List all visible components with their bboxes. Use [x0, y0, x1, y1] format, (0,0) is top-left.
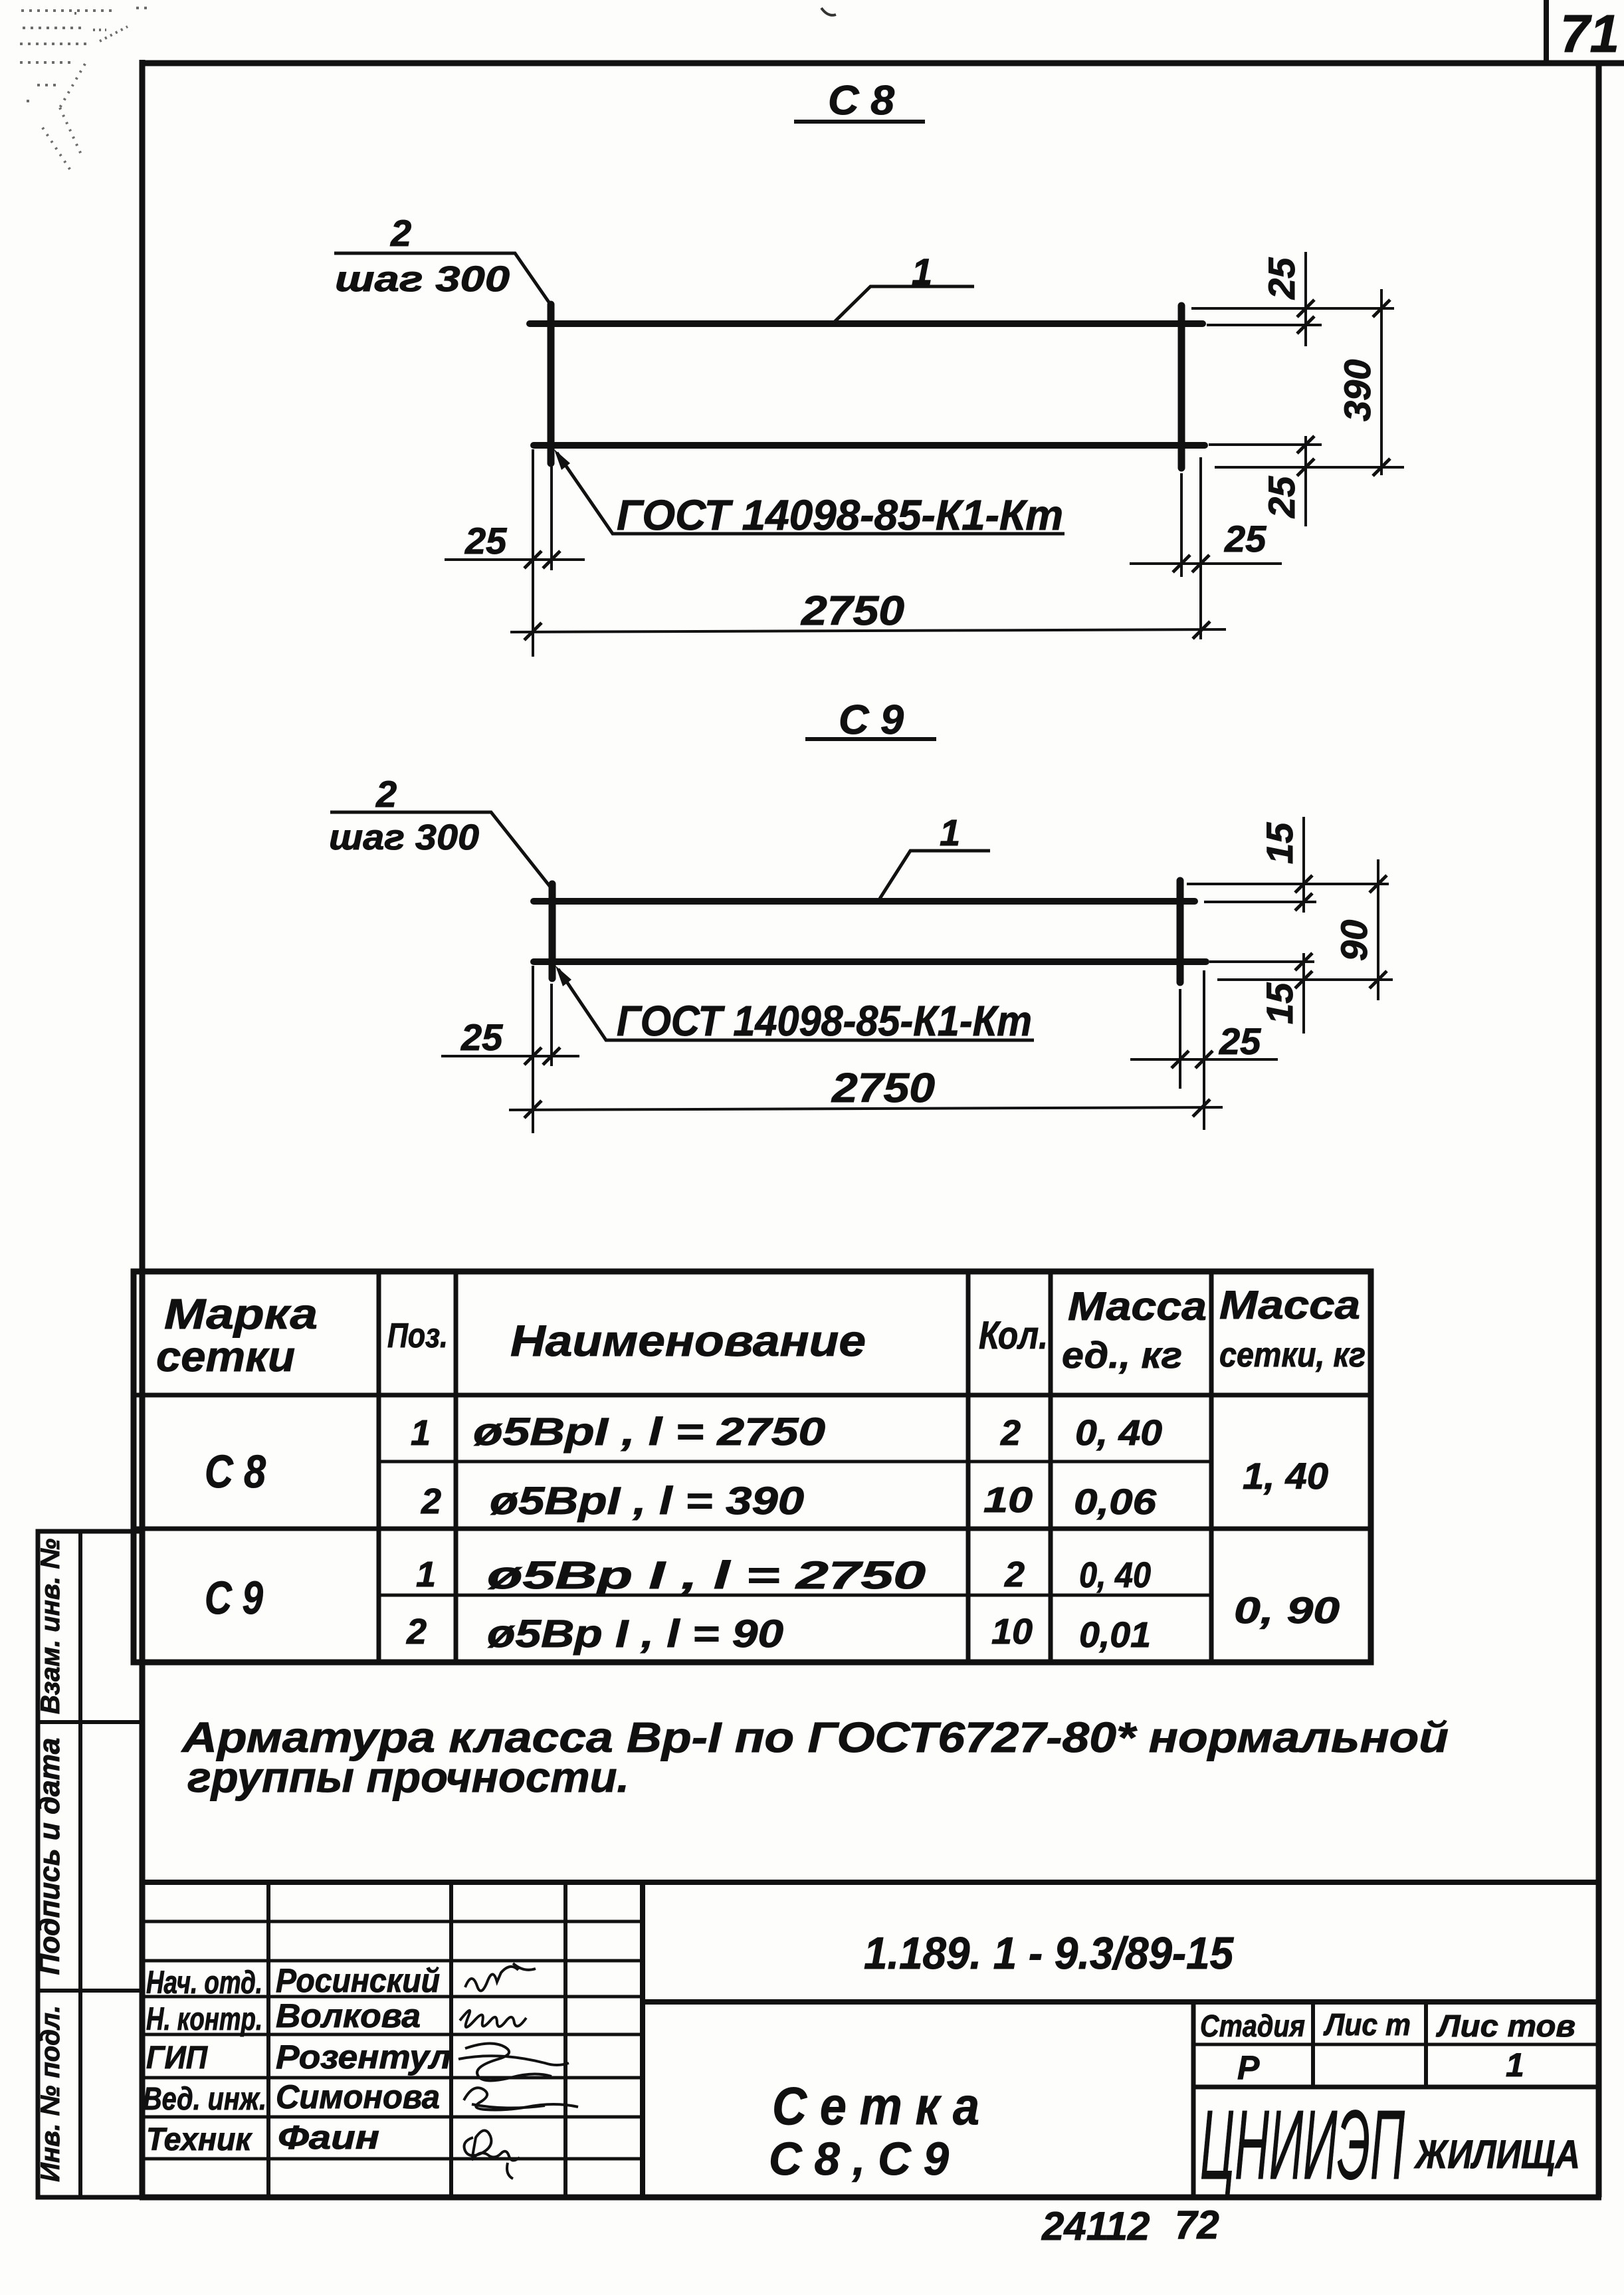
svg-text:0,06: 0,06: [1074, 1482, 1157, 1522]
signature Розентул: [458, 2043, 569, 2080]
dim ticks 390 right C8: [1373, 300, 1390, 476]
svg-text:1.189. 1 - 9.3/89-15: 1.189. 1 - 9.3/89-15: [864, 1928, 1234, 1979]
svg-text:Наименование: Наименование: [510, 1316, 866, 1365]
svg-text:90: 90: [1333, 920, 1375, 961]
svg-text:Инв. № подл.: Инв. № подл.: [36, 2005, 65, 2182]
svg-text:71: 71: [1560, 4, 1619, 63]
title block signature table verticals: [266, 1882, 270, 2197]
dim line 25 bottom right-end C8: [1130, 562, 1282, 565]
dim ext bar2 right C9: [1209, 960, 1314, 963]
svg-text:1: 1: [1506, 2046, 1524, 2084]
svg-text:шаг 300: шаг 300: [329, 818, 479, 857]
dim ticks 25 top right C8: [1297, 300, 1314, 334]
signature Симонова: [464, 2088, 578, 2110]
svg-text:1: 1: [416, 1555, 436, 1594]
svg-text:2: 2: [1004, 1555, 1025, 1594]
svg-text:15: 15: [1259, 982, 1300, 1024]
dim ticks 25 bottom right-end C8: [1173, 555, 1209, 572]
title C9 underline: [805, 737, 936, 741]
svg-text:Техник: Техник: [146, 2122, 253, 2157]
svg-text:Р: Р: [1237, 2049, 1260, 2086]
svg-text:1: 1: [411, 1413, 431, 1453]
svg-text:ø5Вр I , l = 2750: ø5Вр I , l = 2750: [487, 1554, 926, 1597]
svg-text:ЦНИИЭП: ЦНИИЭП: [1200, 2090, 1405, 2200]
dim ext right-bar-end down C8: [1199, 457, 1202, 639]
weld leader arrow C8: [554, 449, 570, 470]
wire bar 1 top C9: [534, 898, 1195, 905]
designation cell bottom line: [643, 1999, 1599, 2005]
svg-text:С 8: С 8: [828, 78, 895, 124]
stage block verticals inner: [1311, 2002, 1315, 2087]
signature Фаин: [464, 2130, 520, 2179]
svg-text:24112: 24112: [1041, 2204, 1150, 2248]
svg-text:С е т к а: С е т к а: [772, 2076, 979, 2135]
table header bottom line: [134, 1393, 1371, 1398]
leader line label 1 C8: [833, 286, 974, 324]
svg-text:ø5ВрI , l = 390: ø5ВрI , l = 390: [490, 1479, 804, 1523]
table row line C9 inner: [379, 1594, 1211, 1597]
leader line label 2 C9: [330, 812, 552, 889]
table column line Марка|Поз: [377, 1271, 381, 1662]
dim ext top-of-wire right C9: [1187, 883, 1389, 885]
dim ext left-bar-end down C9: [532, 966, 534, 1133]
svg-text:Кол.: Кол.: [979, 1314, 1048, 1357]
svg-text:Симонова: Симонова: [276, 2078, 440, 2116]
dim line 25 bottom left C8: [445, 558, 585, 561]
dim ext left-wire down C9: [550, 984, 553, 1066]
svg-text:1: 1: [940, 812, 960, 853]
cross wire right C8: [1178, 306, 1185, 468]
stage block values row line: [1193, 2085, 1599, 2090]
dim ticks 25 bottom left C9: [524, 1047, 560, 1065]
svg-text:ГИП: ГИП: [146, 2040, 208, 2076]
svg-text:25: 25: [1261, 476, 1302, 518]
svg-text:Масса: Масса: [1068, 1284, 1207, 1329]
dim line 25 bottom left C9: [441, 1055, 579, 1057]
dim line 25 top right C8: [1304, 252, 1307, 346]
svg-text:2: 2: [406, 1612, 427, 1652]
svg-text:2: 2: [1000, 1413, 1021, 1453]
corner smudge stamp remains: [20, 8, 152, 170]
signature Волкова: [460, 2011, 526, 2027]
svg-text:Марка: Марка: [164, 1290, 318, 1338]
left boxes divider 2: [38, 1989, 142, 1993]
svg-text:Стадия: Стадия: [1200, 2009, 1305, 2043]
title block top line: [140, 1880, 1599, 1885]
svg-text:15: 15: [1259, 822, 1300, 864]
dim ext bottom-of-wire right C8: [1215, 466, 1404, 469]
svg-text:С 9: С 9: [839, 697, 904, 743]
svg-text:2: 2: [375, 773, 397, 815]
table outer box: [134, 1271, 1371, 1662]
dim line 25 bottom right C8: [1304, 436, 1307, 526]
signature Росинский: [465, 1963, 536, 1991]
svg-text:2: 2: [421, 1481, 441, 1521]
svg-text:25: 25: [1261, 257, 1302, 300]
svg-text:25: 25: [460, 1016, 503, 1058]
svg-text:ЖИЛИЩА: ЖИЛИЩА: [1413, 2132, 1580, 2177]
svg-text:группы прочности.: группы прочности.: [187, 1753, 629, 1801]
dim ticks 2750 C8: [524, 621, 1210, 640]
svg-text:Подпись и дата: Подпись и дата: [33, 1738, 66, 1975]
svg-text:1, 40: 1, 40: [1243, 1455, 1328, 1497]
svg-text:С 8: С 8: [205, 1446, 266, 1497]
dim ext bottom-of-wire right C9: [1217, 978, 1393, 981]
svg-text:10: 10: [983, 1480, 1033, 1520]
dim line 90 right C9: [1377, 859, 1379, 1000]
svg-text:Нач. отд.: Нач. отд.: [146, 1965, 262, 2001]
svg-text:ед., кг: ед., кг: [1062, 1334, 1182, 1376]
svg-text:390: 390: [1336, 360, 1378, 421]
cross wire left C9: [549, 884, 556, 978]
svg-text:Росинский: Росинский: [276, 1962, 440, 1999]
wire bar 1 bottom C9: [534, 958, 1206, 965]
svg-text:72: 72: [1175, 2203, 1219, 2247]
svg-text:2: 2: [390, 212, 411, 254]
svg-text:10: 10: [991, 1612, 1033, 1652]
wire bar 1 top C8: [530, 320, 1203, 327]
dim ticks 15 top right C9: [1295, 875, 1312, 911]
svg-text:2750: 2750: [831, 1065, 935, 1111]
weld leader line C8: [557, 453, 1065, 534]
dim ticks 15 bottom right C9: [1295, 953, 1312, 988]
svg-text:Розентул: Розентул: [276, 2038, 451, 2076]
table column line Поз|Наименование: [454, 1271, 458, 1662]
dim ext right-bar-end down C9: [1203, 970, 1205, 1130]
dim line 2750 C8: [510, 629, 1226, 632]
svg-text:С 9: С 9: [205, 1572, 263, 1624]
svg-text:Масса: Масса: [1219, 1283, 1360, 1327]
svg-text:25: 25: [464, 520, 507, 562]
dim ext right-wire down C8: [1180, 473, 1183, 577]
weld leader arrow C9: [556, 966, 571, 986]
dim line 15 top right C9: [1302, 817, 1305, 913]
title block signature table row lines: [142, 1920, 643, 1923]
svg-text:ГОСТ 14098-85-К1-Кт: ГОСТ 14098-85-К1-Кт: [617, 997, 1032, 1045]
dim ticks 90 right C9: [1370, 875, 1387, 988]
svg-text:Взам. инв. №: Взам. инв. №: [36, 1539, 65, 1714]
table column line Наименование|Кол: [966, 1271, 971, 1662]
svg-text:0,01: 0,01: [1079, 1615, 1151, 1655]
stage block vertical: [1191, 2002, 1196, 2197]
svg-text:0, 90: 0, 90: [1234, 1589, 1340, 1631]
dim ticks 25 bottom left C8: [524, 551, 560, 568]
svg-text:сетки, кг: сетки, кг: [1219, 1336, 1366, 1374]
svg-text:25: 25: [1224, 518, 1267, 560]
table column line Кол|Масса ед: [1049, 1271, 1053, 1662]
dim ticks 2750 C9: [524, 1099, 1210, 1118]
dim ticks 25 bottom right C9: [1171, 1051, 1213, 1068]
dim line 2750 C9: [509, 1107, 1223, 1110]
title C8 underline: [794, 120, 925, 124]
svg-text:ГОСТ 14098-85-К1-Кт: ГОСТ 14098-85-К1-Кт: [617, 491, 1063, 539]
svg-text:0, 40: 0, 40: [1075, 1413, 1162, 1453]
table column line Масса ед|Масса сетки: [1209, 1271, 1214, 1662]
dim ticks 25 bottom right C8: [1297, 436, 1314, 476]
svg-text:Лис т: Лис т: [1323, 2007, 1411, 2042]
svg-text:сетки: сетки: [156, 1333, 295, 1380]
svg-text:Волкова: Волкова: [276, 1997, 421, 2034]
svg-text:Лис тов: Лис тов: [1436, 2009, 1575, 2043]
sheet number cell divider: [1544, 0, 1549, 63]
dim line 390 right C8: [1380, 289, 1383, 475]
svg-text:Вед. инж.: Вед. инж.: [143, 2082, 266, 2117]
dim ext bar1 right C8: [1207, 324, 1322, 326]
dim ext left-bar-end down C8: [532, 449, 534, 657]
svg-text:Н. контр.: Н. контр.: [146, 2002, 262, 2037]
wire bar 1 bottom C8: [534, 442, 1205, 449]
dim line 25 bottom right C9: [1130, 1058, 1278, 1061]
dim line 15 bottom right C9: [1302, 953, 1305, 1034]
svg-text:2750: 2750: [801, 588, 904, 634]
svg-text:Фаин: Фаин: [278, 2119, 379, 2156]
stage block header row line: [1193, 2043, 1599, 2046]
cross wire left C8: [548, 304, 555, 463]
svg-text:С 8 , С 9: С 8 , С 9: [769, 2133, 949, 2185]
dim ext top-of-wire right C8: [1191, 307, 1394, 310]
weld leader line C9: [558, 969, 1034, 1040]
svg-text:ø5ВрI , l = 2750: ø5ВрI , l = 2750: [473, 1410, 825, 1454]
dim ext bar2 right C8: [1209, 443, 1322, 446]
svg-text:25: 25: [1219, 1020, 1261, 1062]
svg-text:0, 40: 0, 40: [1079, 1555, 1151, 1595]
svg-text:Поз.: Поз.: [387, 1317, 448, 1355]
dim ext right-wire down C9: [1179, 989, 1181, 1089]
dim ext left-wire down C8: [550, 467, 553, 570]
stray scan mark top center: [821, 8, 836, 15]
leader line label 1 C9: [880, 851, 990, 899]
left boxes divider 1: [38, 1720, 142, 1724]
table row line C8 inner: [379, 1460, 1211, 1464]
dim ext bar1 right C9: [1204, 901, 1316, 903]
table row line C8|C9: [134, 1527, 1371, 1531]
cross wire right C9: [1177, 881, 1184, 982]
svg-text:ø5Вр I , l = 90: ø5Вр I , l = 90: [487, 1612, 783, 1656]
svg-text:шаг 300: шаг 300: [335, 259, 510, 299]
left boxes outer: [38, 1531, 142, 2197]
left boxes inner vertical: [78, 1531, 82, 2197]
leader line label 2 C8: [334, 253, 551, 305]
